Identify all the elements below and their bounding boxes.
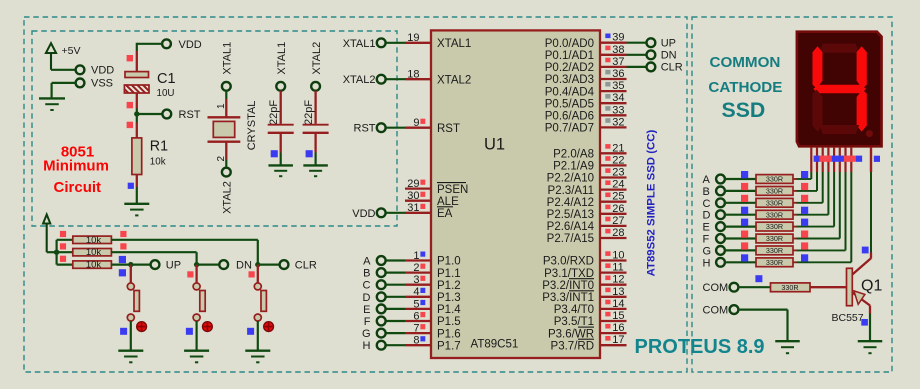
svg-text:330R: 330R xyxy=(781,283,798,292)
svg-text:CRYSTAL: CRYSTAL xyxy=(246,101,258,151)
svg-text:XTAL2: XTAL2 xyxy=(311,42,323,75)
svg-text:10k: 10k xyxy=(86,247,102,258)
svg-text:P2.5/A13: P2.5/A13 xyxy=(547,209,594,221)
svg-text:330R: 330R xyxy=(766,187,783,196)
svg-text:35: 35 xyxy=(612,80,624,92)
svg-text:H: H xyxy=(363,340,371,352)
svg-text:15: 15 xyxy=(612,310,624,322)
svg-text:C: C xyxy=(703,198,711,210)
svg-text:P2.7/A15: P2.7/A15 xyxy=(547,233,594,245)
svg-text:B: B xyxy=(363,268,370,280)
svg-text:9: 9 xyxy=(413,117,419,129)
svg-text:33: 33 xyxy=(612,104,624,116)
svg-text:XTAL1: XTAL1 xyxy=(343,38,376,50)
svg-text:13: 13 xyxy=(612,286,624,298)
svg-text:330R: 330R xyxy=(766,175,783,184)
svg-text:10U: 10U xyxy=(157,88,175,99)
svg-text:UP: UP xyxy=(661,38,676,50)
svg-text:4: 4 xyxy=(413,286,419,298)
svg-text:PSEN: PSEN xyxy=(437,184,468,196)
svg-text:P0.6/AD6: P0.6/AD6 xyxy=(545,111,594,123)
svg-text:A: A xyxy=(363,256,371,268)
svg-text:A: A xyxy=(703,174,711,186)
svg-text:P2.6/A14: P2.6/A14 xyxy=(547,221,595,233)
svg-text:37: 37 xyxy=(612,56,624,68)
svg-text:25: 25 xyxy=(612,191,624,203)
svg-text:Minimum: Minimum xyxy=(43,158,109,175)
svg-text:+5V: +5V xyxy=(62,45,81,57)
svg-text:DN: DN xyxy=(236,260,252,272)
svg-text:3: 3 xyxy=(413,274,419,286)
svg-text:SSD: SSD xyxy=(722,98,766,122)
svg-text:P1.2: P1.2 xyxy=(437,280,461,292)
svg-text:22pF: 22pF xyxy=(303,100,315,125)
svg-text:19: 19 xyxy=(407,32,419,44)
svg-text:P3.4/T0: P3.4/T0 xyxy=(554,304,594,316)
svg-text:36: 36 xyxy=(612,68,624,80)
svg-text:XTAL2: XTAL2 xyxy=(222,181,234,214)
svg-text:P0.5/AD5: P0.5/AD5 xyxy=(545,98,594,110)
svg-text:H: H xyxy=(703,257,711,269)
svg-text:Circuit: Circuit xyxy=(54,179,102,196)
svg-text:BC557: BC557 xyxy=(832,312,864,324)
svg-text:VDD: VDD xyxy=(179,39,202,51)
svg-text:6: 6 xyxy=(413,310,419,322)
svg-text:COM: COM xyxy=(703,282,729,294)
svg-text:34: 34 xyxy=(612,92,624,104)
svg-text:1: 1 xyxy=(413,250,419,262)
svg-text:C: C xyxy=(363,280,371,292)
svg-text:5: 5 xyxy=(413,298,419,310)
svg-text:EA: EA xyxy=(437,208,453,220)
svg-text:XTAL1: XTAL1 xyxy=(437,38,471,50)
svg-text:10k: 10k xyxy=(150,156,166,167)
svg-text:XTAL1: XTAL1 xyxy=(276,42,288,75)
svg-text:F: F xyxy=(703,234,710,246)
svg-text:21: 21 xyxy=(612,142,624,154)
svg-text:P1.6: P1.6 xyxy=(437,328,461,340)
svg-text:P1.0: P1.0 xyxy=(437,256,461,268)
svg-text:330R: 330R xyxy=(766,222,783,231)
svg-text:XTAL2: XTAL2 xyxy=(343,74,376,86)
svg-text:P3.1/TXD: P3.1/TXD xyxy=(544,268,594,280)
svg-text:E: E xyxy=(703,222,710,234)
svg-text:10k: 10k xyxy=(86,235,102,246)
svg-text:C1: C1 xyxy=(157,71,176,87)
svg-text:31: 31 xyxy=(407,202,419,214)
svg-text:XTAL1: XTAL1 xyxy=(222,42,234,75)
svg-text:330R: 330R xyxy=(766,258,783,267)
svg-text:330R: 330R xyxy=(766,210,783,219)
svg-text:COM: COM xyxy=(703,304,729,316)
svg-text:22: 22 xyxy=(612,154,624,166)
svg-text:30: 30 xyxy=(407,190,419,202)
svg-text:P0.1/AD1: P0.1/AD1 xyxy=(545,50,594,62)
svg-text:RST: RST xyxy=(179,109,201,121)
svg-text:330R: 330R xyxy=(766,234,783,243)
svg-text:18: 18 xyxy=(407,69,419,81)
svg-text:RST: RST xyxy=(437,123,460,135)
svg-text:XTAL2: XTAL2 xyxy=(437,74,471,86)
svg-text:F: F xyxy=(364,316,371,328)
svg-text:RST: RST xyxy=(354,123,376,135)
svg-text:D: D xyxy=(703,210,711,222)
svg-text:CLR: CLR xyxy=(661,62,683,74)
svg-text:P2.3/A11: P2.3/A11 xyxy=(548,185,594,197)
svg-text:24: 24 xyxy=(612,179,624,191)
svg-text:DN: DN xyxy=(661,50,677,62)
svg-text:22pF: 22pF xyxy=(268,100,280,125)
svg-text:E: E xyxy=(363,304,370,316)
svg-text:32: 32 xyxy=(612,116,624,128)
svg-text:10: 10 xyxy=(612,250,624,262)
svg-text:P3.0/RXD: P3.0/RXD xyxy=(543,256,594,268)
svg-text:23: 23 xyxy=(612,167,624,179)
svg-text:39: 39 xyxy=(612,32,624,44)
svg-text:P1.4: P1.4 xyxy=(437,304,461,316)
svg-text:Q1: Q1 xyxy=(861,278,882,295)
svg-text:330R: 330R xyxy=(766,198,783,207)
svg-text:R1: R1 xyxy=(150,139,168,155)
svg-text:AT89C51: AT89C51 xyxy=(471,339,519,351)
svg-text:7: 7 xyxy=(413,323,419,335)
svg-text:COMMON: COMMON xyxy=(710,54,781,71)
svg-text:PROTEUS 8.9: PROTEUS 8.9 xyxy=(635,336,765,358)
svg-text:CLR: CLR xyxy=(295,260,317,272)
svg-text:P1.7: P1.7 xyxy=(437,340,461,352)
svg-text:VDD: VDD xyxy=(352,208,375,220)
svg-text:17: 17 xyxy=(612,334,624,346)
svg-text:B: B xyxy=(703,186,710,198)
svg-text:P2.0/A8: P2.0/A8 xyxy=(553,149,594,161)
svg-text:U1: U1 xyxy=(484,136,505,154)
svg-text:14: 14 xyxy=(612,298,624,310)
svg-text:P3.7/RD: P3.7/RD xyxy=(551,340,594,352)
svg-text:P0.3/AD3: P0.3/AD3 xyxy=(545,74,594,86)
svg-text:16: 16 xyxy=(612,322,624,334)
svg-text:AT89S52 SIMPLE SSD (CC): AT89S52 SIMPLE SSD (CC) xyxy=(646,130,658,277)
svg-text:G: G xyxy=(362,328,371,340)
svg-text:1: 1 xyxy=(216,103,227,109)
svg-text:P3.6/WR: P3.6/WR xyxy=(548,328,594,340)
svg-text:P0.7/AD7: P0.7/AD7 xyxy=(545,123,594,135)
svg-text:27: 27 xyxy=(612,215,624,227)
svg-text:P1.3: P1.3 xyxy=(437,292,461,304)
svg-text:10k: 10k xyxy=(86,260,102,271)
svg-text:P2.2/A10: P2.2/A10 xyxy=(547,173,594,185)
svg-text:P0.2/AD2: P0.2/AD2 xyxy=(545,62,594,74)
svg-text:P1.1: P1.1 xyxy=(437,268,461,280)
svg-text:38: 38 xyxy=(612,44,624,56)
svg-text:UP: UP xyxy=(166,260,181,272)
svg-text:P3.5/T1: P3.5/T1 xyxy=(554,316,594,328)
svg-text:P2.4/A12: P2.4/A12 xyxy=(547,197,594,209)
svg-text:P0.4/AD4: P0.4/AD4 xyxy=(545,86,595,98)
svg-text:29: 29 xyxy=(407,178,419,190)
svg-text:P2.1/A9: P2.1/A9 xyxy=(553,161,594,173)
svg-text:VSS: VSS xyxy=(91,78,113,90)
svg-text:330R: 330R xyxy=(766,246,783,255)
svg-text:G: G xyxy=(703,245,712,257)
svg-text:CATHODE: CATHODE xyxy=(708,79,782,96)
svg-text:26: 26 xyxy=(612,203,624,215)
svg-text:P0.0/AD0: P0.0/AD0 xyxy=(545,38,594,50)
svg-text:P3.2/INT0: P3.2/INT0 xyxy=(542,280,594,292)
svg-text:28: 28 xyxy=(612,227,624,239)
svg-text:12: 12 xyxy=(612,274,624,286)
svg-text:11: 11 xyxy=(612,262,623,274)
svg-text:P1.5: P1.5 xyxy=(437,316,461,328)
svg-text:2: 2 xyxy=(413,262,419,274)
svg-text:P3.3/INT1: P3.3/INT1 xyxy=(542,292,594,304)
svg-text:VDD: VDD xyxy=(91,65,114,77)
svg-text:ALE: ALE xyxy=(437,196,459,208)
svg-text:8: 8 xyxy=(413,335,419,347)
svg-text:D: D xyxy=(363,292,371,304)
